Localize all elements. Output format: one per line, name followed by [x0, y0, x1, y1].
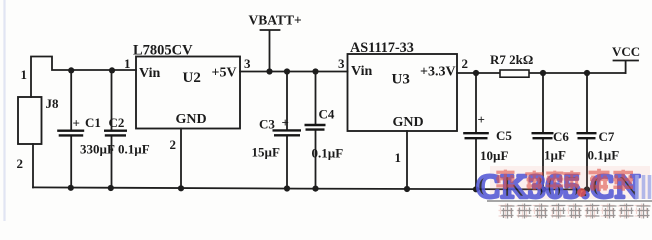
junction VBATT tap [266, 68, 272, 74]
svg-text:C7: C7 [599, 129, 615, 144]
junction C2 bottom [108, 185, 114, 191]
junction C7 bottom [584, 186, 590, 192]
capacitor C4 [305, 72, 344, 189]
svg-text:3: 3 [338, 56, 345, 71]
capacitor C1 [57, 70, 115, 187]
svg-text:GND: GND [393, 115, 424, 130]
node VCC [612, 44, 640, 73]
svg-text:1: 1 [21, 67, 28, 82]
watermark CK365.CN blue text [490, 166, 650, 199]
watermark red chinese overlay [496, 169, 633, 192]
svg-text:C4: C4 [319, 107, 335, 122]
svg-text:10µF: 10µF [480, 148, 508, 163]
svg-text:+: + [73, 116, 80, 131]
junction C5 bottom [473, 186, 479, 192]
capacitor C5 [463, 73, 512, 189]
junction U2 pin2 ground [178, 185, 184, 191]
svg-text:AS1117-33: AS1117-33 [350, 40, 414, 56]
watermark tagline gray text [501, 204, 651, 219]
wire +3.3V rail U3 to VCC [457, 72, 626, 74]
svg-text:C1: C1 [85, 115, 101, 130]
svg-text:0.1µF: 0.1µF [588, 148, 620, 163]
watermark red dot [577, 188, 586, 197]
ground rail (bottom bus) [33, 187, 587, 189]
watermark underline [487, 200, 652, 202]
svg-text:3: 3 [244, 56, 251, 71]
svg-text:15µF: 15µF [252, 145, 280, 160]
svg-text:VCC: VCC [612, 44, 640, 59]
svg-text:R7 2kΩ: R7 2kΩ [490, 52, 533, 67]
svg-text:2: 2 [170, 137, 177, 152]
resistor R7 2k ohm [490, 52, 533, 77]
svg-text:1: 1 [124, 56, 131, 71]
svg-text:VBATT+: VBATT+ [249, 13, 302, 28]
svg-text:U3: U3 [392, 72, 410, 88]
junction C4 bottom [312, 186, 318, 192]
junction C7 tap [584, 70, 590, 76]
wire +5V rail U2 to U3 [240, 71, 348, 73]
junction U3 pin1 ground [404, 186, 410, 192]
page edge tint [3, 0, 5, 221]
svg-text:1µF: 1µF [544, 148, 566, 163]
svg-text:0.1µF: 0.1µF [312, 146, 344, 161]
capacitor C3 [252, 72, 302, 189]
node VBATT+ [249, 13, 302, 72]
regulator U3 AS1117-33 [348, 40, 458, 131]
svg-text:330µF: 330µF [80, 142, 115, 157]
svg-text:+3.3V: +3.3V [420, 65, 456, 80]
junction C2 top [109, 67, 115, 73]
junction C4 top [312, 68, 318, 74]
svg-text:L7805CV: L7805CV [133, 43, 193, 59]
svg-text:1: 1 [395, 150, 402, 165]
svg-text:+5V: +5V [212, 66, 237, 81]
wire U2 pin2 to ground rail [180, 129, 182, 189]
wire U3 pin1 to ground rail [406, 131, 408, 189]
junction C6 tap [540, 70, 546, 76]
svg-text:2: 2 [17, 156, 24, 171]
svg-text:Vin: Vin [139, 66, 160, 81]
svg-text:+: + [282, 115, 289, 130]
svg-text:C5: C5 [496, 128, 512, 143]
svg-text:J8: J8 [46, 96, 60, 111]
junction C3 top [284, 68, 290, 74]
watermark tagline red shadow [499, 204, 649, 219]
svg-text:0.1µF: 0.1µF [118, 142, 150, 157]
svg-text:Vin: Vin [351, 64, 372, 79]
capacitor C6 [532, 73, 570, 189]
wire J8 pin2 down to ground rail [32, 144, 34, 187]
svg-text:C3: C3 [259, 117, 275, 132]
capacitor C7 [577, 73, 620, 190]
regulator U2 L7805CV [133, 43, 240, 129]
watermark pale bars right [637, 175, 650, 199]
connector J8 [18, 97, 42, 144]
junction C1 top [68, 67, 74, 73]
svg-text:C6: C6 [553, 129, 569, 144]
junction C1 bottom [68, 185, 74, 191]
svg-text:C2: C2 [109, 115, 125, 130]
junction C5 tap [473, 70, 479, 76]
junction C3 bottom [284, 185, 290, 191]
svg-text:U2: U2 [183, 70, 201, 86]
svg-text:GND: GND [176, 112, 207, 127]
junction C6 bottom [540, 186, 546, 192]
svg-text:2: 2 [462, 56, 469, 71]
wire J8 pin1 step to input rail [31, 57, 136, 98]
capacitor C2 [104, 70, 150, 187]
svg-text:+: + [478, 112, 485, 127]
